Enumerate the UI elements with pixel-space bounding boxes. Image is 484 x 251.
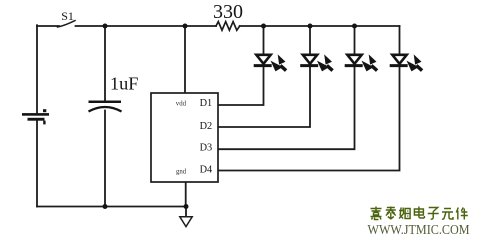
junction node: vdd / top rail bbox=[183, 24, 188, 29]
char 电 bbox=[414, 207, 424, 219]
wire: left rail upper (to battery) bbox=[36, 25, 38, 113]
char 泰 bbox=[386, 207, 396, 220]
wire: top rail left segment to switch bbox=[37, 25, 59, 27]
junction node: LED2 / top rail bbox=[308, 24, 313, 29]
wire: LED3 anode stub bbox=[354, 26, 356, 56]
resistor R 330 zigzag bbox=[216, 22, 240, 31]
wire: D3 net (IC pin D3 to LED3 cathode) bbox=[218, 67, 355, 150]
svg-text:D2: D2 bbox=[200, 121, 213, 132]
wire: bottom ground rail bbox=[37, 206, 186, 208]
junction node: LED3 / top rail bbox=[352, 24, 357, 29]
wire: gnd column from IC to bottom rail bbox=[185, 182, 187, 207]
switch S1 lever bbox=[58, 21, 76, 27]
capacitor C1 bbox=[89, 102, 122, 112]
wire: resistor to top-right corner bbox=[240, 25, 400, 27]
wire: switch to resistor (through cap and vdd junctions) bbox=[76, 25, 217, 27]
svg-text:330: 330 bbox=[213, 1, 243, 23]
svg-text:D4: D4 bbox=[200, 164, 213, 175]
svg-text:D3: D3 bbox=[200, 143, 213, 154]
svg-text:1uF: 1uF bbox=[110, 74, 138, 94]
char 件 bbox=[456, 208, 468, 220]
svg-text:gnd: gnd bbox=[176, 168, 187, 175]
wire: ground stem bbox=[185, 207, 187, 217]
junction node: gnd / bottom rail bbox=[184, 204, 189, 209]
svg-text:D1: D1 bbox=[200, 98, 213, 109]
IC U1 body bbox=[151, 93, 218, 182]
char 嘉 bbox=[371, 207, 382, 220]
junction node: cap / top rail bbox=[103, 24, 108, 29]
char 子 bbox=[428, 208, 439, 220]
LED D2 bbox=[300, 54, 332, 71]
char 元 bbox=[442, 209, 453, 220]
junction node: cap / bottom rail bbox=[103, 204, 108, 209]
wire: capacitor column lower bbox=[104, 111, 106, 207]
wire: D1 net (IC pin D1 to LED1 cathode) bbox=[218, 67, 264, 106]
junction node: LED1 / top rail bbox=[261, 24, 266, 29]
LED D3 bbox=[345, 54, 377, 71]
svg-text:S1: S1 bbox=[61, 9, 74, 23]
char 姆 bbox=[399, 208, 410, 219]
wire: LED4 anode stub bbox=[399, 26, 401, 56]
svg-text:vdd: vdd bbox=[176, 100, 187, 107]
wire: D4 net (IC pin D4 to LED4 cathode) bbox=[218, 67, 400, 171]
wire: capacitor column upper bbox=[104, 26, 106, 101]
LED D4 bbox=[390, 54, 422, 71]
ground symbol bbox=[180, 217, 192, 227]
svg-text:WWW.JTMIC.COM: WWW.JTMIC.COM bbox=[368, 223, 470, 238]
wire: LED1 anode stub bbox=[263, 26, 265, 56]
watermark: Chinese vendor text 嘉泰姆电子元件 (drawn strokes) bbox=[371, 207, 468, 220]
wire: left rail lower (battery to bottom) bbox=[36, 121, 38, 207]
wire: vdd column from top rail to IC bbox=[184, 26, 186, 93]
wire: LED2 anode stub bbox=[309, 26, 311, 56]
battery B1 bbox=[22, 109, 49, 124]
wire: D2 net (IC pin D2 to LED2 cathode) bbox=[218, 67, 310, 128]
LED D1 bbox=[254, 54, 286, 71]
